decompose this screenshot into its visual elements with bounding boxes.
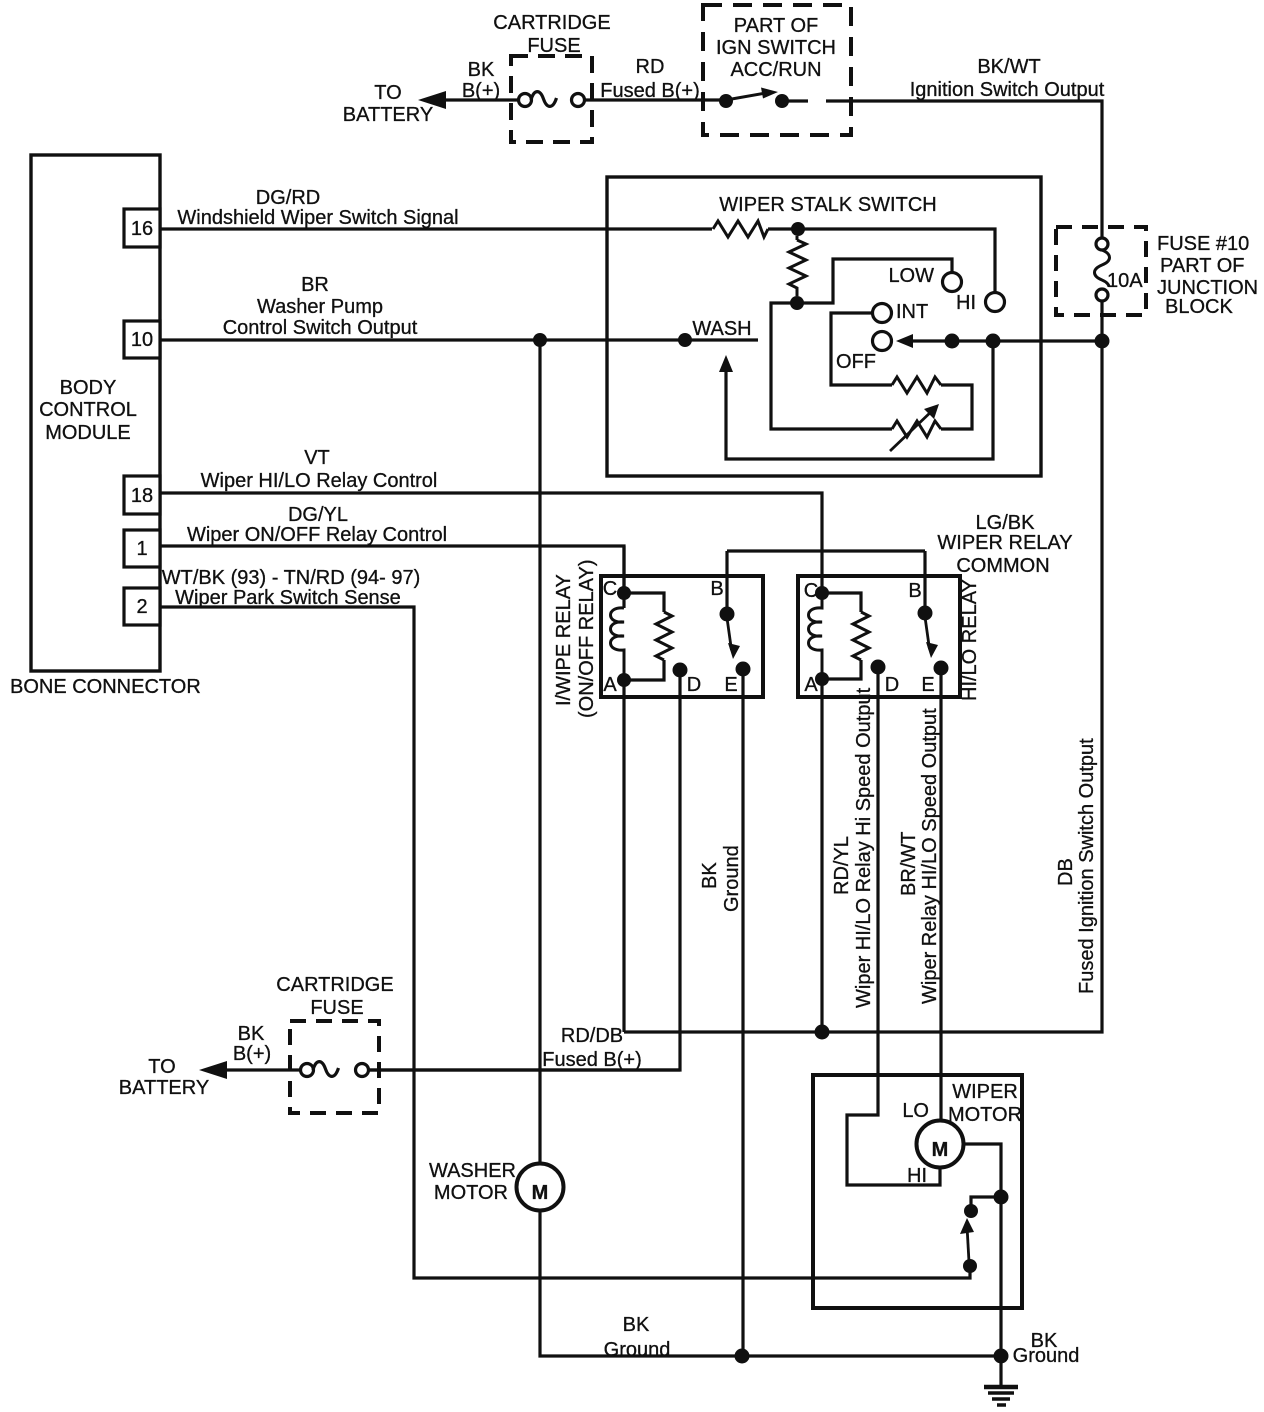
svg-text:DG/RD: DG/RD [256,187,320,209]
svg-text:M: M [532,1182,549,1204]
svg-text:MOTOR: MOTOR [948,1104,1022,1126]
svg-text:C: C [804,580,818,602]
svg-text:COMMON: COMMON [956,555,1049,577]
svg-text:10A: 10A [1107,270,1143,292]
svg-text:WASHER: WASHER [429,1160,516,1182]
svg-text:Fused Ignition Switch Output: Fused Ignition Switch Output [1076,738,1098,994]
svg-text:Wiper HI/LO Relay Control: Wiper HI/LO Relay Control [201,470,438,492]
svg-text:DB: DB [1055,858,1077,886]
svg-text:16: 16 [131,218,153,240]
svg-text:Wiper Park Switch Sense: Wiper Park Switch Sense [175,587,401,609]
svg-text:FUSE #10: FUSE #10 [1157,233,1249,255]
svg-text:1: 1 [136,538,147,560]
svg-text:HI: HI [956,292,976,314]
svg-text:WT/BK (93) - TN/RD (94- 97): WT/BK (93) - TN/RD (94- 97) [162,567,421,589]
svg-text:MOTOR: MOTOR [434,1182,508,1204]
svg-text:RD/DB: RD/DB [561,1025,623,1047]
svg-text:D: D [885,674,899,696]
svg-text:WIPER: WIPER [952,1081,1018,1103]
svg-text:PART OF: PART OF [1160,255,1244,277]
svg-text:Fused B(+): Fused B(+) [542,1049,641,1071]
svg-text:HI/LO RELAY: HI/LO RELAY [959,579,981,701]
svg-text:BK: BK [623,1314,650,1336]
svg-text:LOW: LOW [888,265,934,287]
svg-text:BLOCK: BLOCK [1165,296,1233,318]
svg-text:Windshield Wiper Switch Signal: Windshield Wiper Switch Signal [177,207,458,229]
svg-text:BK: BK [238,1023,265,1045]
svg-text:B(+): B(+) [233,1043,271,1065]
svg-text:Ground: Ground [721,845,743,912]
svg-text:E: E [921,674,934,696]
svg-text:Washer Pump: Washer Pump [257,296,383,318]
svg-text:Fused B(+): Fused B(+) [600,80,699,102]
svg-text:BATTERY: BATTERY [119,1077,209,1099]
svg-text:WIPER STALK SWITCH: WIPER STALK SWITCH [719,194,936,216]
svg-text:WIPER RELAY: WIPER RELAY [937,532,1072,554]
svg-text:FUSE: FUSE [527,35,580,57]
svg-text:B(+): B(+) [462,80,500,102]
svg-text:E: E [724,674,737,696]
svg-text:VT: VT [304,447,330,469]
svg-text:INT: INT [896,301,928,323]
svg-text:FUSE: FUSE [310,997,363,1019]
svg-text:I/WIPE RELAY: I/WIPE RELAY [553,574,575,706]
svg-text:B: B [710,578,723,600]
svg-text:HI: HI [907,1165,927,1187]
svg-text:BR/WT: BR/WT [898,832,920,896]
svg-text:MODULE: MODULE [45,422,131,444]
svg-text:Control Switch Output: Control Switch Output [223,317,418,339]
svg-text:CONTROL: CONTROL [39,399,137,421]
svg-text:RD: RD [636,56,665,78]
svg-text:2: 2 [136,596,147,618]
svg-text:18: 18 [131,485,153,507]
svg-text:TO: TO [148,1056,175,1078]
svg-text:LO: LO [902,1100,929,1122]
svg-text:Wiper HI/LO Relay Hi Speed Out: Wiper HI/LO Relay Hi Speed Output [853,687,875,1008]
svg-text:BR: BR [301,274,329,296]
svg-text:IGN SWITCH: IGN SWITCH [716,37,836,59]
svg-text:BK: BK [699,862,721,889]
svg-text:PART OF: PART OF [734,15,818,37]
svg-text:Wiper Relay HI/LO Speed Output: Wiper Relay HI/LO Speed Output [919,708,941,1004]
svg-text:Ground: Ground [1013,1345,1080,1367]
svg-text:M: M [932,1139,949,1161]
svg-text:CARTRIDGE: CARTRIDGE [493,12,610,34]
svg-text:BATTERY: BATTERY [343,104,433,126]
svg-text:A: A [603,674,617,696]
svg-text:CARTRIDGE: CARTRIDGE [276,974,393,996]
svg-text:BODY: BODY [60,377,117,399]
svg-text:DG/YL: DG/YL [288,504,348,526]
svg-text:D: D [687,674,701,696]
svg-text:OFF: OFF [836,351,876,373]
svg-text:B: B [908,580,921,602]
svg-text:10: 10 [131,329,153,351]
svg-text:RD/YL: RD/YL [831,836,853,895]
svg-text:BK: BK [468,59,495,81]
svg-text:LG/BK: LG/BK [976,512,1036,534]
svg-text:Ground: Ground [604,1339,671,1361]
svg-text:(ON/OFF RELAY): (ON/OFF RELAY) [576,559,598,718]
svg-text:A: A [804,674,818,696]
svg-text:BONE CONNECTOR: BONE CONNECTOR [10,676,201,698]
svg-text:C: C [603,578,617,600]
svg-text:WASH: WASH [692,318,751,340]
svg-text:Ignition Switch Output: Ignition Switch Output [910,79,1105,101]
svg-text:ACC/RUN: ACC/RUN [730,59,821,81]
svg-text:BK/WT: BK/WT [977,56,1040,78]
svg-text:TO: TO [374,82,401,104]
svg-text:Wiper ON/OFF Relay Control: Wiper ON/OFF Relay Control [187,524,447,546]
